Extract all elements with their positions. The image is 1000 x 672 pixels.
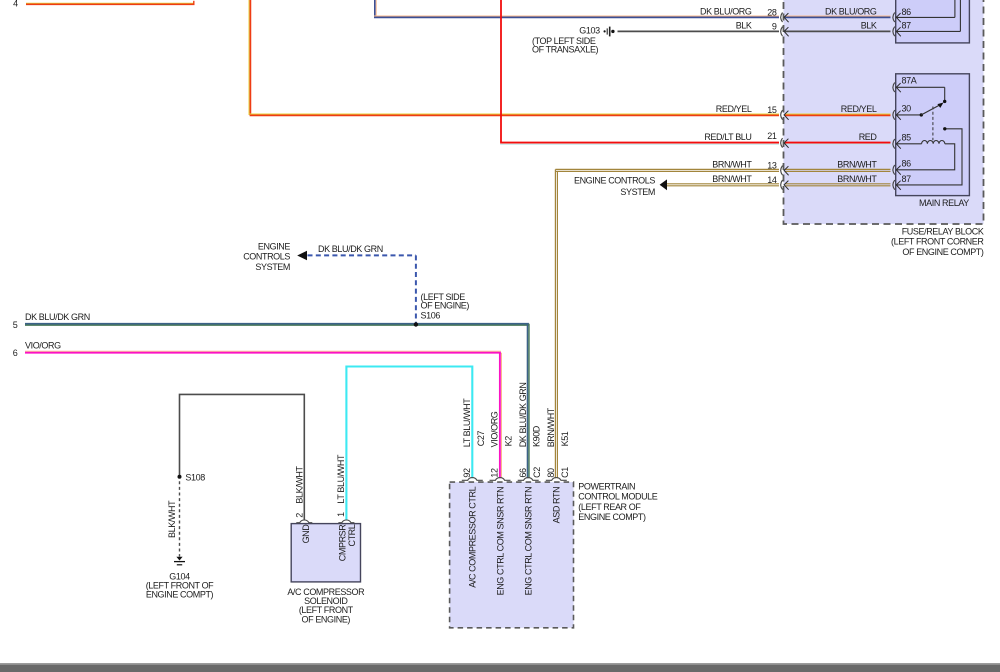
svg-text:OF ENGINE): OF ENGINE)	[302, 614, 351, 624]
svg-text:BRN/WHT: BRN/WHT	[712, 159, 752, 169]
svg-text:ASD RTN: ASD RTN	[552, 487, 562, 524]
svg-text:VIO/ORG: VIO/ORG	[490, 411, 500, 447]
svg-text:BLK/WHT: BLK/WHT	[295, 465, 305, 503]
svg-text:9: 9	[772, 22, 777, 32]
svg-text:30: 30	[902, 104, 912, 114]
svg-text:BRN/WHT: BRN/WHT	[712, 174, 752, 184]
svg-text:92: 92	[462, 468, 472, 478]
svg-text:4: 4	[13, 0, 18, 9]
svg-text:RED/LT BLU: RED/LT BLU	[704, 132, 751, 142]
svg-text:LT BLU/WHT: LT BLU/WHT	[336, 454, 346, 504]
svg-text:6: 6	[13, 348, 18, 358]
svg-text:(LEFT REAR OF: (LEFT REAR OF	[578, 502, 641, 512]
svg-text:OF TRANSAXLE): OF TRANSAXLE)	[532, 44, 599, 54]
svg-text:G103: G103	[579, 25, 600, 35]
svg-text:OF ENGINE COMPT): OF ENGINE COMPT)	[902, 247, 984, 257]
svg-text:15: 15	[767, 105, 777, 115]
svg-text:CONTROL MODULE: CONTROL MODULE	[578, 492, 657, 502]
svg-text:CTRL: CTRL	[347, 524, 357, 546]
svg-text:K90D: K90D	[532, 425, 542, 447]
svg-text:DK BLU/DK GRN: DK BLU/DK GRN	[518, 382, 528, 447]
svg-text:CONTROLS: CONTROLS	[243, 252, 290, 262]
svg-text:87A: 87A	[902, 76, 917, 86]
svg-text:1: 1	[336, 512, 346, 517]
svg-text:14: 14	[767, 175, 777, 185]
svg-text:S106: S106	[421, 311, 441, 321]
svg-text:DK BLU/DK GRN: DK BLU/DK GRN	[25, 312, 90, 322]
svg-text:87: 87	[902, 174, 912, 184]
svg-text:BLK: BLK	[736, 20, 752, 30]
svg-text:RED/YEL: RED/YEL	[841, 104, 877, 114]
svg-text:FUSE/RELAY BLOCK: FUSE/RELAY BLOCK	[902, 226, 984, 236]
svg-text:2: 2	[295, 513, 305, 518]
svg-text:K2: K2	[504, 436, 514, 447]
svg-text:VIO/ORG: VIO/ORG	[25, 341, 61, 351]
svg-text:OF ENGINE): OF ENGINE)	[421, 300, 470, 310]
svg-text:BRN/WHT: BRN/WHT	[837, 159, 877, 169]
svg-text:86: 86	[902, 159, 912, 169]
svg-text:A/C COMPRESSOR CTRL: A/C COMPRESSOR CTRL	[468, 486, 478, 587]
svg-text:ENGINE COMPT): ENGINE COMPT)	[578, 512, 646, 522]
svg-text:C2: C2	[532, 467, 542, 478]
svg-text:RED/YEL: RED/YEL	[716, 104, 752, 114]
svg-text:12: 12	[490, 468, 500, 478]
svg-text:S108: S108	[185, 472, 205, 482]
svg-text:DK BLU/ORG: DK BLU/ORG	[700, 6, 752, 16]
svg-text:GND: GND	[301, 524, 311, 544]
svg-text:(LEFT FRONT CORNER: (LEFT FRONT CORNER	[891, 237, 984, 247]
svg-text:BLK/WHT: BLK/WHT	[167, 500, 177, 538]
svg-text:28: 28	[767, 7, 777, 17]
svg-text:ENGINE CONTROLS: ENGINE CONTROLS	[574, 176, 655, 186]
svg-text:87: 87	[902, 20, 912, 30]
svg-text:ENG CTRL COM SNSR RTN: ENG CTRL COM SNSR RTN	[524, 487, 534, 596]
svg-text:DK BLU/DK GRN: DK BLU/DK GRN	[318, 244, 383, 254]
svg-text:MAIN RELAY: MAIN RELAY	[919, 198, 969, 208]
svg-text:86: 86	[902, 7, 912, 17]
svg-text:C1: C1	[560, 467, 570, 478]
svg-text:BLK: BLK	[861, 20, 877, 30]
svg-text:66: 66	[518, 468, 528, 478]
svg-text:POWERTRAIN: POWERTRAIN	[578, 481, 635, 491]
svg-text:SYSTEM: SYSTEM	[255, 262, 290, 272]
svg-text:BRN/WHT: BRN/WHT	[837, 174, 877, 184]
svg-text:SYSTEM: SYSTEM	[620, 187, 655, 197]
svg-text:13: 13	[767, 161, 777, 171]
svg-text:BRN/WHT: BRN/WHT	[546, 407, 556, 447]
svg-text:80: 80	[546, 468, 556, 478]
svg-text:5: 5	[13, 320, 18, 330]
svg-text:21: 21	[767, 131, 777, 141]
svg-text:RED: RED	[859, 132, 878, 142]
svg-text:ENGINE COMPT): ENGINE COMPT)	[146, 590, 214, 600]
svg-text:LT BLU/WHT: LT BLU/WHT	[462, 398, 472, 448]
svg-text:K51: K51	[560, 431, 570, 446]
svg-text:85: 85	[902, 133, 912, 143]
svg-text:DK BLU/ORG: DK BLU/ORG	[825, 6, 877, 16]
svg-text:C27: C27	[476, 430, 486, 446]
svg-text:ENGINE: ENGINE	[258, 241, 291, 251]
svg-text:ENG CTRL COM SNSR RTN: ENG CTRL COM SNSR RTN	[495, 487, 505, 596]
